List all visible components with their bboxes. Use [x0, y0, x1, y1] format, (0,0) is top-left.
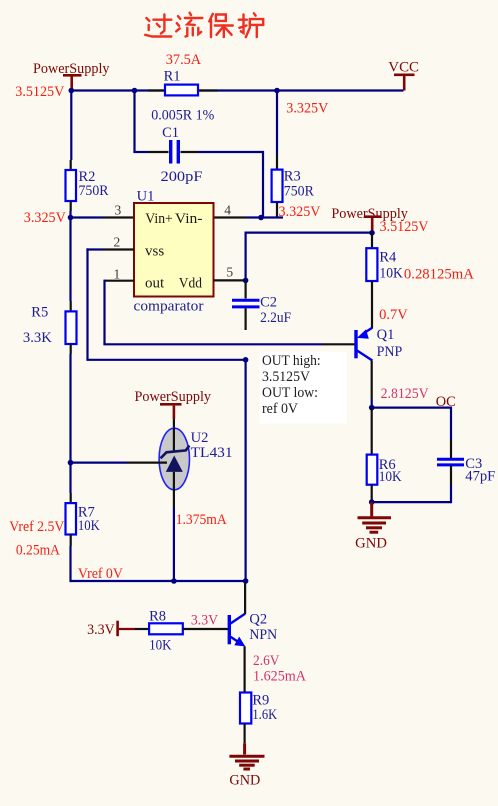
wire Vref0V rail — [71, 580, 246, 582]
svg-text:0.25mA: 0.25mA — [16, 543, 60, 559]
junction top-left — [69, 88, 75, 94]
svg-text:2.8125V: 2.8125V — [381, 386, 429, 402]
power bar PowerSupply top-left — [63, 74, 82, 77]
resistor R6 — [367, 455, 378, 485]
ground GND upper — [358, 502, 392, 532]
wire to R5 — [69, 218, 71, 302]
svg-text:10K: 10K — [379, 469, 402, 485]
svg-text:VCC: VCC — [388, 60, 419, 76]
wire R2 to node — [69, 211, 71, 219]
junction R3 branch — [274, 88, 280, 94]
svg-text:3: 3 — [115, 203, 122, 218]
svg-text:4: 4 — [224, 203, 231, 218]
svg-text:C1: C1 — [162, 125, 179, 141]
pin R3.2 — [276, 202, 278, 218]
svg-text:Q2: Q2 — [249, 612, 267, 628]
pin U2 ref lead — [127, 462, 167, 464]
svg-text:1: 1 — [114, 267, 121, 282]
wire OC bottom — [372, 501, 451, 503]
svg-text:GND: GND — [229, 773, 260, 789]
pin C2.2 — [245, 308, 247, 330]
svg-text:Vin+: Vin+ — [145, 211, 173, 227]
wire pin2 down — [86, 248, 88, 359]
port 3.3V lead — [119, 628, 135, 630]
wire OC right down — [450, 407, 452, 441]
svg-text:10K: 10K — [379, 266, 403, 282]
wire out to Q1 — [103, 343, 322, 345]
pin Q1.base lead — [322, 343, 355, 345]
resistor R5 — [66, 311, 77, 344]
svg-text:0.7V: 0.7V — [379, 307, 408, 323]
note OUT high/low text box — [259, 352, 346, 424]
pin R9.2 — [244, 724, 246, 744]
svg-text:TL431: TL431 — [191, 445, 233, 461]
svg-text:10K: 10K — [78, 518, 100, 534]
svg-text:3.325V: 3.325V — [279, 204, 322, 220]
power bar PowerSupply right — [364, 215, 382, 218]
wire R2 top — [70, 91, 72, 161]
svg-text:R5: R5 — [31, 305, 48, 321]
svg-text:PowerSupply: PowerSupply — [135, 389, 212, 405]
svg-text:1.375mA: 1.375mA — [176, 512, 227, 528]
svg-text:R4: R4 — [379, 250, 397, 266]
svg-text:3.3V: 3.3V — [191, 613, 219, 629]
wire R3 top — [276, 91, 278, 155]
resistor R3 — [272, 170, 283, 202]
pin R5.2 — [70, 344, 72, 354]
junction pin3 node — [68, 215, 74, 221]
pin R1.1 — [148, 89, 165, 91]
power stem right — [371, 218, 374, 233]
svg-text:Vdd: Vdd — [179, 276, 203, 292]
svg-text:3.325V: 3.325V — [24, 210, 67, 226]
pin Q1.collector — [371, 361, 373, 400]
svg-text:0.005R 1%: 0.005R 1% — [151, 108, 214, 124]
wire top rail — [70, 89, 403, 91]
svg-text:GND: GND — [355, 536, 387, 552]
svg-text:Q1: Q1 — [377, 327, 395, 343]
pin C1.1 — [148, 151, 169, 153]
pin R6.1 — [371, 408, 373, 455]
wire C1 right — [198, 151, 263, 153]
resistor R7 — [66, 503, 77, 534]
svg-text:750R: 750R — [284, 184, 314, 200]
capacitor C2 — [232, 300, 260, 307]
wire vss column — [245, 360, 247, 581]
resistor R8 — [149, 623, 183, 634]
svg-text:0.28125mA: 0.28125mA — [404, 267, 475, 283]
resistor R2 — [66, 170, 77, 201]
capacitor C1 — [171, 140, 179, 164]
transistor Q1 PNP — [356, 328, 372, 361]
pin U1.3 — [103, 216, 134, 218]
svg-text:U2: U2 — [191, 430, 209, 446]
wire OC top — [372, 407, 451, 409]
power stem — [70, 77, 73, 91]
resistor R9 — [240, 693, 251, 724]
transistor Q2 NPN — [229, 614, 245, 647]
svg-text:NPN: NPN — [249, 627, 277, 643]
wire out down — [103, 280, 105, 345]
pin C2.1 — [245, 280, 247, 298]
diode U2 TL431 — [159, 428, 189, 490]
svg-text:PNP: PNP — [377, 344, 403, 360]
pin U1.4 — [214, 216, 248, 218]
pin R7.1 — [70, 493, 72, 503]
pin R4.1 — [371, 233, 373, 248]
svg-text:5: 5 — [226, 265, 233, 280]
svg-text:10K: 10K — [149, 638, 172, 654]
svg-text:Vin-: Vin- — [175, 211, 203, 227]
capacitor C3 — [437, 459, 464, 465]
pin Q2.collector — [244, 582, 246, 614]
wire C3 bottom — [450, 485, 452, 503]
svg-text:Vref 0V: Vref 0V — [78, 566, 123, 582]
ground GND lower — [229, 743, 264, 769]
pin U1.1 — [105, 280, 135, 282]
resistor R1 — [165, 85, 198, 96]
svg-text:1.625mA: 1.625mA — [253, 669, 307, 685]
svg-text:comparator: comparator — [134, 299, 204, 315]
op-amp U1 comparator body — [134, 203, 214, 297]
svg-text:OUT high:: OUT high: — [262, 353, 321, 369]
junction C1 branch — [132, 88, 138, 94]
pin C3.2 — [450, 466, 452, 485]
svg-text:1.6K: 1.6K — [252, 707, 277, 723]
pin Q2.emitter — [244, 646, 246, 692]
wire ref — [71, 462, 128, 464]
junction U2 on rail — [171, 578, 177, 584]
wire powersupply rail — [246, 232, 372, 234]
junction C2 bottom — [243, 357, 249, 363]
svg-text:3.3V: 3.3V — [87, 622, 115, 638]
svg-text:750R: 750R — [79, 183, 109, 199]
pin U2 cathode lead — [173, 419, 175, 429]
svg-text:3.325V: 3.325V — [286, 101, 329, 117]
wire R5 to ref node — [69, 354, 71, 463]
pin R7.2 — [70, 535, 72, 547]
svg-text:3.5125V: 3.5125V — [15, 84, 65, 100]
pin R5.1 — [70, 301, 72, 311]
svg-text:2: 2 — [114, 235, 121, 250]
wire ref to R7 — [69, 463, 71, 493]
svg-text:C2: C2 — [260, 295, 277, 311]
VCC stem — [403, 76, 406, 91]
power stem U2 — [173, 406, 176, 419]
svg-text:2.6V: 2.6V — [253, 653, 280, 669]
pin R2.2 — [70, 201, 72, 211]
pin C1.2 — [181, 151, 199, 153]
svg-text:vss: vss — [145, 244, 164, 260]
pin R2.1 — [70, 160, 72, 170]
pin U1.2 — [103, 248, 134, 250]
wire to pin3 — [71, 216, 104, 218]
wire pin2 a — [86, 248, 103, 250]
junction OC node — [369, 405, 375, 411]
wire vss to C2 node — [86, 359, 245, 361]
wire to C1 — [133, 151, 148, 153]
svg-text:Vref 2.5V: Vref 2.5V — [9, 519, 64, 535]
junction ref node — [68, 460, 74, 466]
svg-text:37.5A: 37.5A — [166, 52, 202, 68]
svg-text:2.2uF: 2.2uF — [260, 310, 291, 326]
svg-text:R8: R8 — [149, 609, 166, 625]
wire C1 drop — [133, 91, 135, 153]
pin U2 anode lead — [173, 490, 175, 507]
power bar VCC — [394, 74, 415, 77]
junction pin5/C2 — [243, 278, 249, 284]
pin R6.2 — [371, 485, 373, 502]
pin R3.1 — [276, 155, 278, 171]
pin R4.2 emitter lead — [371, 281, 373, 329]
wire pin4 to R3 — [247, 216, 283, 218]
wire R7 to rail — [69, 546, 71, 582]
junction R4 top — [369, 230, 375, 236]
wire Q1c to node — [371, 399, 373, 408]
wire U2 to rail — [173, 507, 175, 581]
svg-text:200pF: 200pF — [161, 169, 203, 185]
svg-text:R1: R1 — [164, 69, 181, 85]
junction pin4/C1/R3 — [258, 215, 264, 221]
svg-text:R3: R3 — [284, 169, 301, 185]
title 过流保护 — [145, 13, 263, 37]
svg-text:3.3K: 3.3K — [23, 330, 53, 346]
pin U1.5 — [214, 279, 246, 281]
svg-text:OUT low:: OUT low: — [262, 385, 318, 401]
pin C3.1 — [450, 440, 452, 458]
port bar 3.3V — [116, 621, 119, 637]
svg-text:3.5125V: 3.5125V — [380, 219, 430, 235]
svg-text:out: out — [145, 276, 165, 292]
power bar PowerSupply U2 — [160, 403, 182, 406]
junction Q2 collector on rail — [243, 578, 249, 584]
wire down to pin5 — [245, 232, 247, 281]
junction R6/C3/GND — [369, 499, 375, 505]
pin R8.1 — [135, 628, 149, 630]
svg-text:47pF: 47pF — [465, 469, 495, 485]
wire C1 down — [262, 151, 264, 218]
pin R8.2 base lead — [183, 628, 228, 630]
resistor R4 — [366, 248, 377, 281]
svg-text:3.5125V: 3.5125V — [262, 369, 310, 385]
svg-text:ref 0V: ref 0V — [262, 401, 298, 417]
pin R1.2 — [198, 89, 218, 91]
